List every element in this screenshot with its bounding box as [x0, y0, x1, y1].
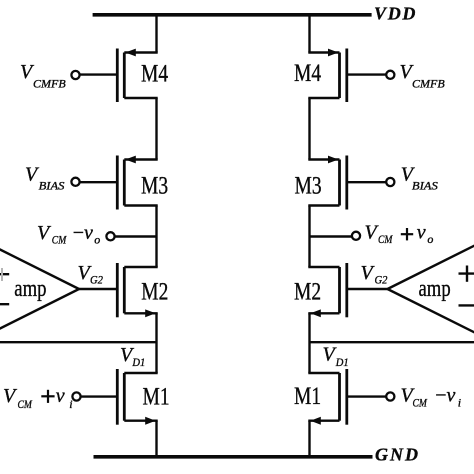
svg-text:D1: D1 — [131, 356, 145, 369]
svg-text:o: o — [94, 232, 100, 246]
svg-text:CM: CM — [378, 233, 393, 246]
svg-text:i: i — [69, 397, 72, 411]
svg-text:M4: M4 — [141, 59, 168, 87]
svg-text:M2: M2 — [141, 277, 168, 305]
svg-text:v: v — [447, 385, 456, 407]
svg-text:amp: amp — [14, 275, 46, 302]
svg-text:CMFB: CMFB — [33, 76, 66, 90]
svg-text:BIAS: BIAS — [412, 179, 438, 193]
svg-text:CM: CM — [18, 398, 33, 411]
svg-text:o: o — [427, 232, 433, 246]
svg-text:GND: GND — [375, 445, 420, 465]
svg-text:M2: M2 — [294, 277, 321, 305]
svg-text:−: − — [434, 385, 448, 407]
svg-text:v: v — [417, 222, 426, 244]
svg-text:M3: M3 — [141, 171, 168, 199]
svg-text:G2: G2 — [375, 274, 388, 287]
svg-text:D1: D1 — [335, 356, 349, 369]
svg-text:CMFB: CMFB — [412, 76, 445, 90]
svg-text:BIAS: BIAS — [39, 179, 65, 193]
svg-text:CM: CM — [413, 397, 428, 410]
svg-text:M1: M1 — [143, 382, 170, 410]
svg-text:G2: G2 — [90, 274, 103, 287]
svg-text:−: − — [72, 222, 86, 244]
svg-text:amp: amp — [419, 275, 451, 302]
svg-text:M3: M3 — [295, 171, 322, 199]
svg-text:v: v — [84, 222, 93, 244]
svg-text:VDD: VDD — [374, 4, 417, 24]
svg-text:M4: M4 — [294, 59, 321, 87]
svg-text:CM: CM — [52, 233, 67, 246]
svg-text:v: v — [56, 385, 65, 407]
svg-text:M1: M1 — [294, 382, 321, 410]
svg-text:i: i — [458, 396, 461, 410]
